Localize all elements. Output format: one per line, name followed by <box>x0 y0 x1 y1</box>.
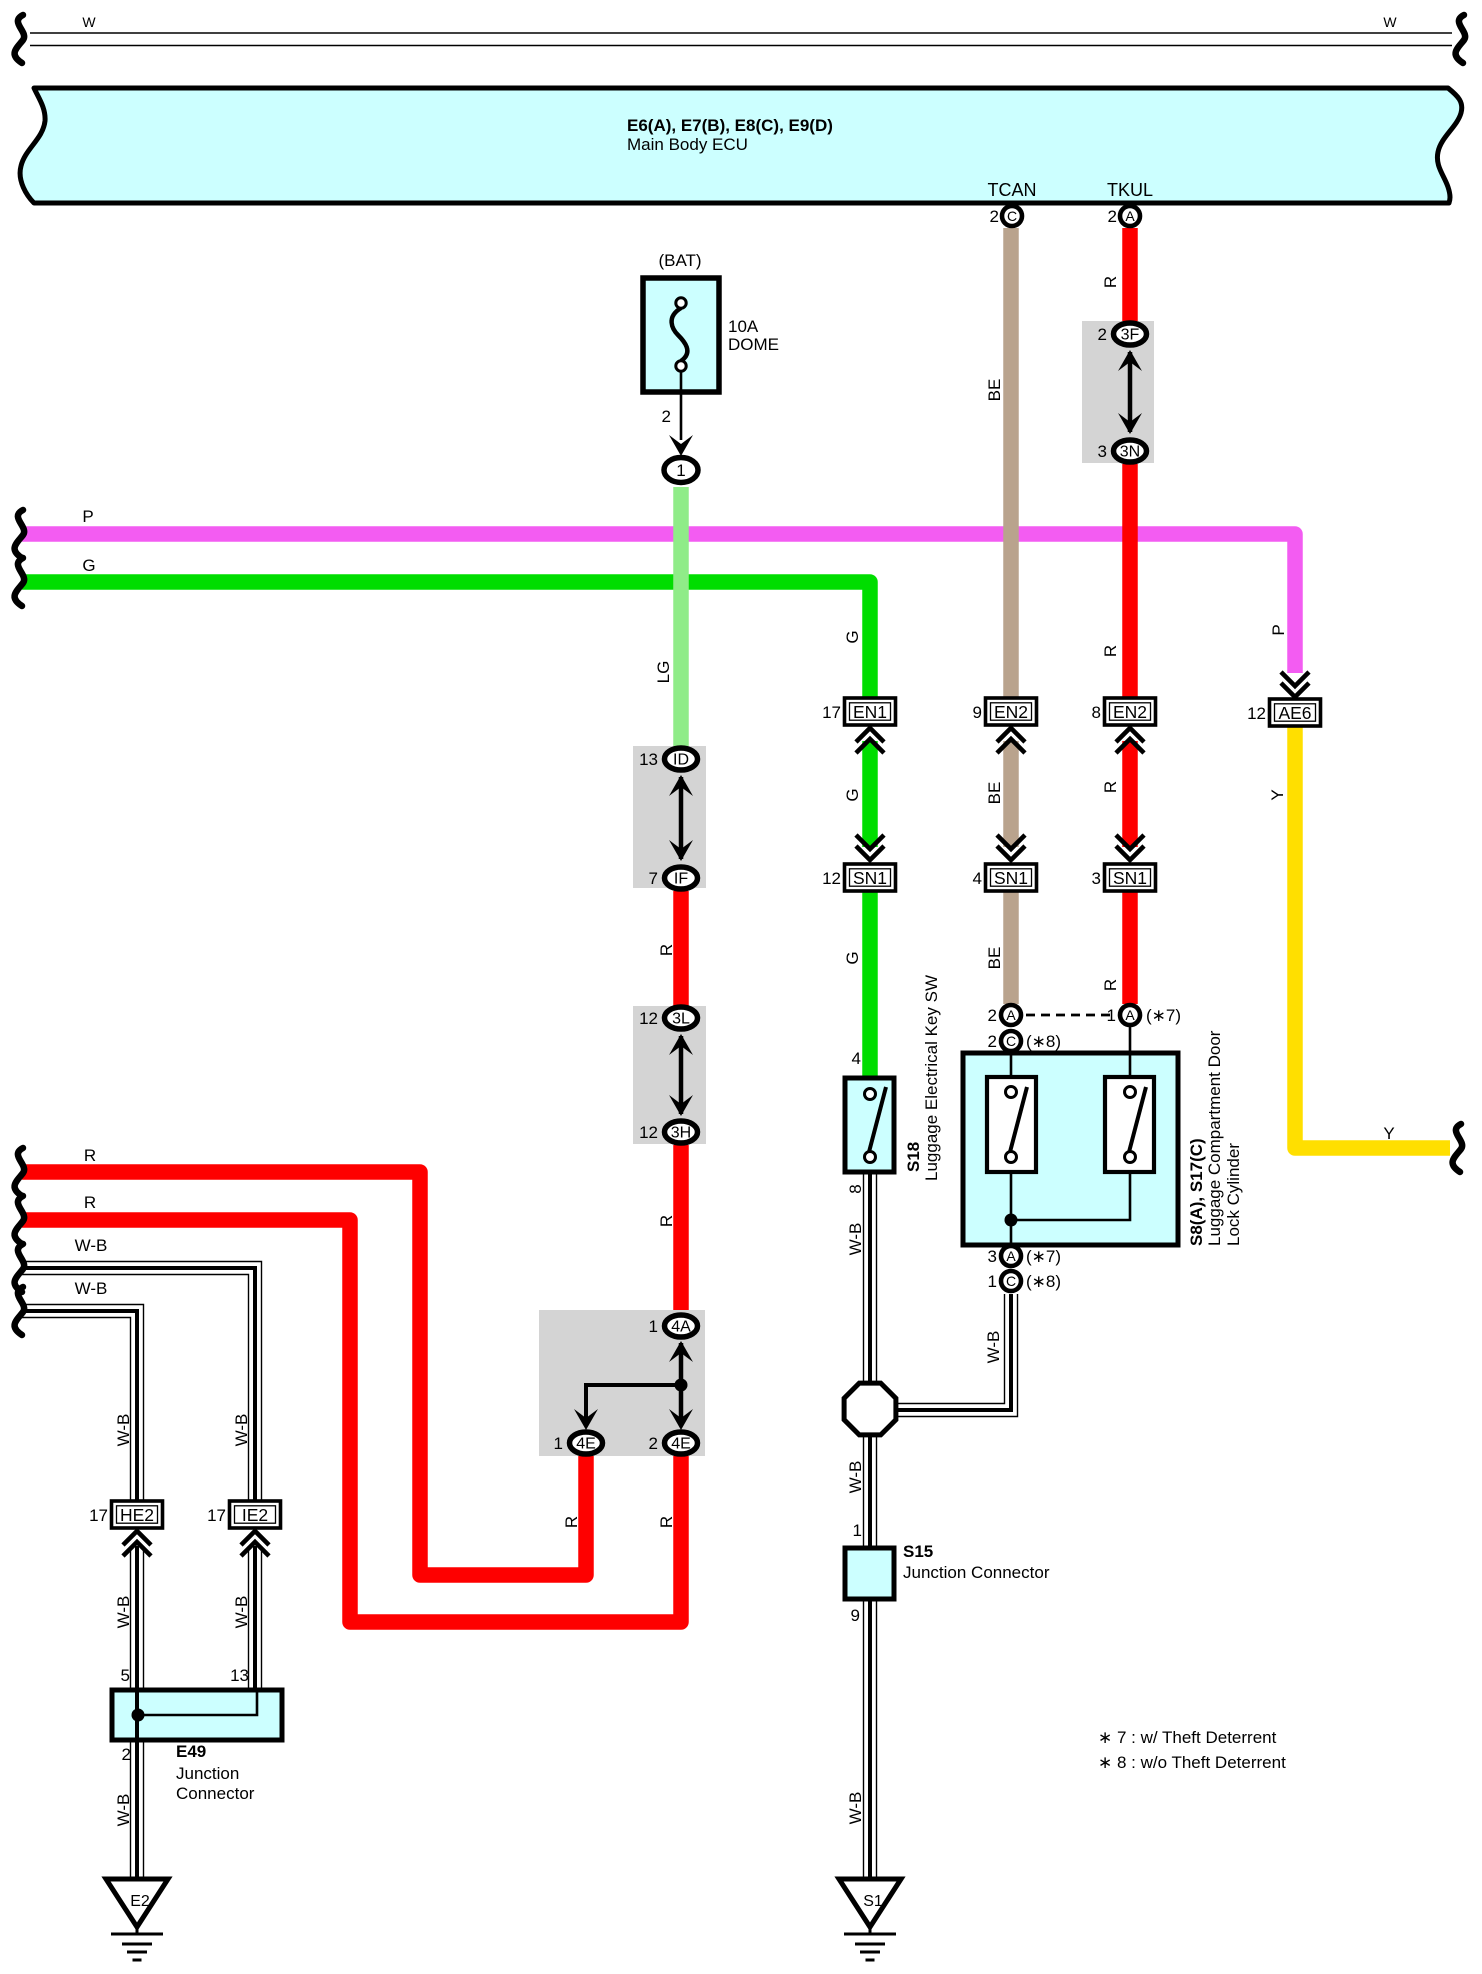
svg-text:3: 3 <box>988 1247 997 1266</box>
svg-text:3N: 3N <box>1120 444 1140 461</box>
svg-text:Connector: Connector <box>176 1784 255 1803</box>
svg-text:G: G <box>843 788 862 801</box>
break symbol W-B upper left <box>15 1244 25 1292</box>
wire W-B left lower to HE2 <box>22 1305 144 1502</box>
svg-text:12: 12 <box>822 869 841 888</box>
svg-text:1: 1 <box>676 461 685 480</box>
connector block ID/IF <box>633 746 706 888</box>
chevrons above SN1 pin3 <box>1116 835 1144 849</box>
svg-text:4: 4 <box>973 869 982 888</box>
lock cylinder pin circle A (1, *7) <box>1120 1005 1140 1025</box>
svg-text:E2: E2 <box>130 1893 150 1910</box>
svg-text:LG: LG <box>654 661 673 684</box>
svg-text:12: 12 <box>639 1009 658 1028</box>
chevrons below EN2 pin8 <box>1116 728 1144 742</box>
svg-text:W-B: W-B <box>75 1236 108 1255</box>
svg-text:4E: 4E <box>576 1436 596 1453</box>
svg-text:ID: ID <box>673 752 689 769</box>
wire fuse pin2 to node 1 <box>680 371 683 440</box>
svg-text:AE6: AE6 <box>1278 703 1311 723</box>
chevrons below EN1 <box>856 728 884 742</box>
svg-text:8: 8 <box>1092 703 1101 722</box>
wire R left lower to 4E pin2 <box>22 1220 681 1622</box>
wire LG (light green) fuse to ID <box>673 487 689 746</box>
connector EN1 pin17 <box>822 698 895 725</box>
wire R SN1 to lock cylinder pin A <box>1122 891 1138 1004</box>
svg-text:3H: 3H <box>671 1125 691 1142</box>
svg-text:A: A <box>1006 1007 1016 1023</box>
wire W-B octagon to S15 <box>863 1433 865 1548</box>
connector oval ID pin13 <box>639 748 697 770</box>
svg-text:5: 5 <box>121 1666 130 1685</box>
connector oval IF pin7 <box>649 867 698 889</box>
svg-text:G: G <box>843 951 862 964</box>
connector oval 3F pin2 <box>1098 323 1147 345</box>
wire R left upper to 4E pin1 <box>22 1172 586 1575</box>
svg-text:C: C <box>1006 1273 1016 1289</box>
chevrons above SN1 pin12 <box>856 835 884 849</box>
svg-text:10A: 10A <box>728 317 759 336</box>
svg-text:G: G <box>843 630 862 643</box>
svg-text:BE: BE <box>985 379 1004 402</box>
connector block 4A/4E <box>539 1310 705 1456</box>
wire BE (beige) TCAN to EN2 <box>1003 228 1019 698</box>
break symbol R lower left <box>15 1196 25 1244</box>
wire BE SN1 to luggage switch pin A <box>1003 891 1019 1004</box>
junction connector E49 <box>112 1690 282 1740</box>
wire R TKUL to 3F <box>1122 228 1138 322</box>
svg-text:2: 2 <box>1098 325 1107 344</box>
break symbol W left <box>15 15 25 63</box>
wire R 3H to 4A <box>673 1145 689 1313</box>
node 1 oval <box>664 458 698 483</box>
svg-text:G: G <box>82 556 95 575</box>
svg-text:W: W <box>1383 14 1397 30</box>
svg-text:(∗7): (∗7) <box>1146 1006 1181 1025</box>
wire W-B IE2 to E49 pin13 <box>248 1546 250 1690</box>
wire R IF to 3L <box>673 891 689 1006</box>
svg-text:17: 17 <box>207 1506 226 1525</box>
svg-text:(∗7): (∗7) <box>1026 1247 1061 1266</box>
svg-text:HE2: HE2 <box>120 1505 154 1525</box>
svg-text:EN2: EN2 <box>994 702 1028 722</box>
wire W-B S15 to ground S1 <box>863 1599 865 1879</box>
svg-text:W-B: W-B <box>232 1596 251 1629</box>
connector oval 4E pin2 <box>649 1432 698 1454</box>
svg-text:Lock Cylinder: Lock Cylinder <box>1224 1143 1243 1246</box>
wire W-B E49 pin2 to ground E2 <box>130 1740 132 1879</box>
svg-text:Y: Y <box>1268 789 1287 800</box>
svg-text:9: 9 <box>973 703 982 722</box>
wire W-B lock cylinder to octagon joint <box>897 1294 1005 1404</box>
svg-text:17: 17 <box>822 703 841 722</box>
Main Body ECU box E6/E7/E8/E9 <box>20 88 1462 203</box>
svg-text:DOME: DOME <box>728 335 779 354</box>
svg-text:7: 7 <box>649 869 658 888</box>
svg-text:S15: S15 <box>903 1542 933 1561</box>
svg-text:R: R <box>562 1516 581 1528</box>
svg-text:BE: BE <box>985 782 1004 805</box>
svg-text:W-B: W-B <box>984 1331 1003 1364</box>
ground S1 <box>839 1879 901 1960</box>
chevrons below EN2 pin9 <box>997 728 1025 742</box>
svg-text:3F: 3F <box>1121 327 1140 344</box>
svg-text:C: C <box>1006 1033 1016 1049</box>
svg-text:2: 2 <box>662 407 671 426</box>
svg-text:TCAN: TCAN <box>988 180 1037 200</box>
junction connector S15 <box>845 1548 894 1599</box>
svg-text:3: 3 <box>1098 442 1107 461</box>
svg-text:4: 4 <box>852 1049 861 1068</box>
svg-text:S8(A), S17(C): S8(A), S17(C) <box>1187 1138 1206 1246</box>
svg-text:A: A <box>1125 1007 1135 1023</box>
svg-text:A: A <box>1125 208 1135 224</box>
switch S18 Luggage Electrical Key SW <box>845 1078 894 1172</box>
connector EN2 pin8 <box>1092 698 1156 725</box>
wire W (white) top bus <box>30 33 1452 46</box>
svg-text:17: 17 <box>89 1506 108 1525</box>
svg-text:S18: S18 <box>904 1142 923 1172</box>
lock cylinder pin circle C (2, *8) <box>1001 1031 1021 1051</box>
chevrons above SN1 pin4 <box>997 835 1025 849</box>
svg-text:8: 8 <box>846 1184 865 1193</box>
svg-text:2: 2 <box>988 1032 997 1051</box>
dashed link between A pins <box>1026 1014 1113 1017</box>
svg-text:12: 12 <box>639 1123 658 1142</box>
svg-text:2: 2 <box>988 1006 997 1025</box>
svg-text:W-B: W-B <box>846 1461 865 1494</box>
connector oval 3H pin12 <box>639 1121 697 1143</box>
fuse 10A DOME (BAT) <box>643 278 719 392</box>
svg-text:SN1: SN1 <box>1113 868 1147 888</box>
svg-text:∗ 8 : w/o Theft Deterrent: ∗ 8 : w/o Theft Deterrent <box>1098 1753 1286 1772</box>
svg-text:W-B: W-B <box>114 1596 133 1629</box>
svg-text:Junction: Junction <box>176 1764 239 1783</box>
break symbol R upper left <box>15 1148 25 1196</box>
lock cylinder pin circle C (1, *8) below <box>1001 1271 1021 1291</box>
wire G (green) horizontal from left to EN1 <box>22 582 870 698</box>
svg-text:1: 1 <box>988 1272 997 1291</box>
chevrons below IE2 <box>241 1531 269 1545</box>
svg-text:R: R <box>84 1193 96 1212</box>
svg-text:W-B: W-B <box>232 1414 251 1447</box>
svg-text:9: 9 <box>851 1606 860 1625</box>
svg-text:2: 2 <box>649 1434 658 1453</box>
connector oval 3L pin12 <box>639 1007 697 1029</box>
svg-text:4E: 4E <box>671 1436 691 1453</box>
ground E2 <box>106 1879 168 1960</box>
switch assembly S8/S17 Luggage Compartment Door Lock Cylinder <box>963 1026 1178 1245</box>
wire W-B HE2 to E49 pin5 <box>130 1546 132 1690</box>
ECU pin circle A (TKUL) <box>1120 206 1140 226</box>
svg-text:Luggage Electrical Key SW: Luggage Electrical Key SW <box>922 975 941 1181</box>
connector HE2 pin17 <box>89 1501 162 1528</box>
svg-text:IE2: IE2 <box>242 1505 268 1525</box>
svg-text:R: R <box>657 1516 676 1528</box>
svg-text:4A: 4A <box>671 1319 691 1336</box>
connector block 3L/3H <box>633 1006 706 1144</box>
svg-text:R: R <box>1101 276 1120 288</box>
wire G EN1 to SN1 <box>862 741 878 847</box>
wire G SN1 to S18 <box>862 891 878 1078</box>
arrow into node 1 <box>669 435 693 456</box>
svg-text:1: 1 <box>853 1521 862 1540</box>
connector oval 4E pin1 <box>554 1432 603 1454</box>
svg-text:Junction Connector: Junction Connector <box>903 1563 1050 1582</box>
svg-text:13: 13 <box>639 750 658 769</box>
svg-text:2: 2 <box>122 1745 131 1764</box>
wire BE EN2 to SN1 <box>1003 741 1019 847</box>
svg-text:W-B: W-B <box>114 1414 133 1447</box>
wire W-B S18 to octagon joint <box>863 1172 865 1385</box>
svg-text:1: 1 <box>1107 1006 1116 1025</box>
svg-text:W-B: W-B <box>75 1279 108 1298</box>
svg-text:2: 2 <box>990 207 999 226</box>
chevrons above AE6 <box>1281 672 1309 686</box>
lock cylinder pin circle A (3, *7) below <box>1001 1246 1021 1266</box>
svg-text:2: 2 <box>1108 207 1117 226</box>
wire R 3N to EN2 <box>1122 464 1138 698</box>
svg-text:SN1: SN1 <box>994 868 1028 888</box>
svg-text:TKUL: TKUL <box>1107 180 1153 200</box>
wire P (pink) horizontal from left to AE6 <box>22 534 1295 673</box>
wire W-B left upper to IE2 <box>22 1262 262 1502</box>
svg-text:EN2: EN2 <box>1113 702 1147 722</box>
svg-text:3: 3 <box>1092 869 1101 888</box>
connector oval 4A pin1 <box>649 1315 698 1337</box>
svg-text:P: P <box>1269 624 1288 635</box>
svg-text:EN1: EN1 <box>853 702 887 722</box>
svg-text:(∗8): (∗8) <box>1026 1272 1061 1291</box>
break symbol W right <box>1456 15 1466 63</box>
svg-text:S1: S1 <box>863 1893 883 1910</box>
svg-text:1: 1 <box>649 1317 658 1336</box>
svg-text:12: 12 <box>1247 704 1266 723</box>
svg-text:W-B: W-B <box>846 1223 865 1256</box>
svg-text:(BAT): (BAT) <box>658 251 701 270</box>
svg-text:Luggage Compartment Door: Luggage Compartment Door <box>1205 1030 1224 1246</box>
connector block 3F/3N <box>1082 321 1154 463</box>
svg-text:R: R <box>1101 645 1120 657</box>
svg-text:1: 1 <box>554 1434 563 1453</box>
svg-text:W: W <box>82 14 96 30</box>
connector AE6 pin12 <box>1247 699 1320 726</box>
svg-text:Y: Y <box>1383 1124 1394 1143</box>
break symbol G left <box>15 558 25 606</box>
wire R EN2 to SN1 <box>1122 741 1138 847</box>
svg-text:W-B: W-B <box>846 1792 865 1825</box>
octagon splice joint <box>844 1383 896 1435</box>
connector EN2 pin9 <box>973 698 1037 725</box>
svg-text:3L: 3L <box>672 1011 690 1028</box>
svg-text:A: A <box>1006 1248 1016 1264</box>
svg-text:E49: E49 <box>176 1742 206 1761</box>
break symbol W-B lower left <box>15 1287 25 1335</box>
connector SN1 pin3 <box>1092 864 1156 891</box>
svg-text:SN1: SN1 <box>853 868 887 888</box>
svg-text:R: R <box>657 944 676 956</box>
wire W-B through S15 <box>868 1548 872 1599</box>
svg-text:BE: BE <box>985 947 1004 970</box>
lock cylinder pin circle A (2) <box>1001 1005 1021 1025</box>
svg-text:R: R <box>1101 781 1120 793</box>
connector SN1 pin12 <box>822 864 895 891</box>
connector SN1 pin4 <box>973 864 1037 891</box>
svg-text:P: P <box>82 507 93 526</box>
connector oval 3N pin3 <box>1098 440 1147 462</box>
svg-text:W-B: W-B <box>114 1794 133 1827</box>
connector IE2 pin17 <box>207 1501 280 1528</box>
break symbol Y right <box>1453 1124 1463 1172</box>
svg-text:IF: IF <box>674 871 688 888</box>
svg-text:∗ 7 : w/ Theft Deterrent: ∗ 7 : w/ Theft Deterrent <box>1098 1728 1277 1747</box>
svg-text:E6(A), E7(B), E8(C), E9(D): E6(A), E7(B), E8(C), E9(D) <box>627 116 833 135</box>
svg-text:13: 13 <box>230 1666 249 1685</box>
svg-text:(∗8): (∗8) <box>1026 1032 1061 1051</box>
svg-text:Main Body ECU: Main Body ECU <box>627 135 748 154</box>
ECU pin circle C (TCAN) <box>1002 206 1022 226</box>
break symbol P left <box>15 510 25 558</box>
svg-text:R: R <box>1101 979 1120 991</box>
chevrons below HE2 <box>123 1531 151 1545</box>
wire Y AE6 to right edge <box>1295 725 1450 1148</box>
svg-text:C: C <box>1007 208 1017 224</box>
svg-text:R: R <box>657 1215 676 1227</box>
svg-text:R: R <box>84 1146 96 1165</box>
